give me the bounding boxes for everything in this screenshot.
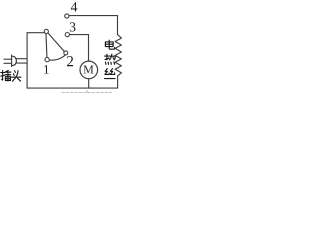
wire wiper arm to contact 1 [45,34,48,58]
terminal 3 circle [65,33,69,37]
label 电 (heater char 1) [105,40,114,49]
wire terminal 4 to heater branch [69,15,118,17]
contact 2 circle [64,51,68,55]
motor M1 circle [80,61,98,79]
wire plug bottom lead [16,62,27,64]
label 头 (plug char 2) [12,71,22,82]
wire motor branch drop [88,35,90,62]
plug body D-shape [12,56,17,65]
wire terminal 3 to motor branch [69,34,88,36]
wire bottom rail [27,87,117,89]
terminal 4 circle [65,14,69,18]
wire heater to bottom rail [117,76,119,88]
watermark dashed line [62,91,113,93]
label 2 [67,56,73,66]
label 3 [70,22,76,31]
plug prong top [4,58,12,60]
label 插 (plug char 1) [1,70,11,80]
plug prong bottom [4,62,12,64]
label 丝 (heater char 3) [105,69,116,79]
label 4 [71,2,78,11]
wire switch feed horizontal [27,32,44,34]
plug body bar [11,55,13,67]
wire motor to bottom rail [88,79,90,89]
label M (motor) [84,66,94,74]
label 热 (heater char 2) [105,54,116,64]
wire plug top lead [16,58,27,60]
label 1 [44,65,48,73]
wire left trunk vertical [26,33,28,88]
switch pivot terminal [44,29,48,33]
wire heater branch drop [117,16,119,35]
contact 1 circle [45,57,49,61]
resistor heating element zigzag [115,35,121,77]
wire wiper arm to contact 2 [48,33,64,52]
wire wiper arc between contacts 1 and 2 [49,55,65,60]
